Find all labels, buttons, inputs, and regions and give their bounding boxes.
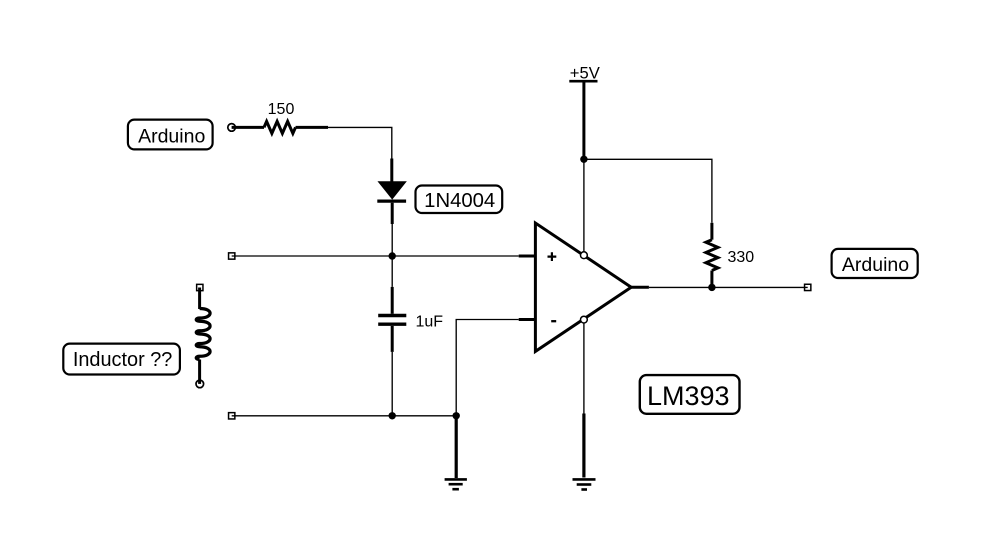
power +5V stem <box>582 81 585 159</box>
ground G2 stem <box>582 414 585 478</box>
power +5V label <box>569 63 600 82</box>
svg-text:LM393: LM393 <box>647 381 730 411</box>
wire plus-input rail <box>232 255 519 257</box>
op-amp U1 minus input stub <box>519 318 536 321</box>
wire diode to node A <box>391 224 393 256</box>
label box Arduino (left) <box>128 120 213 150</box>
op-amp V- pin circle <box>581 316 588 323</box>
svg-text:1N4004: 1N4004 <box>424 190 495 212</box>
inductor L1 coil <box>196 288 210 360</box>
node E (output junction) <box>708 284 715 291</box>
svg-text:150: 150 <box>268 101 295 118</box>
svg-text:+5V: +5V <box>570 63 600 82</box>
wire supply to op-amp V+ <box>583 159 585 252</box>
op-amp U1 triangle <box>535 223 631 351</box>
terminal T3 (bottom left, square) <box>229 413 235 419</box>
op-amp U1 plus sign <box>548 252 557 261</box>
node A (diode/cap junction) <box>389 252 396 259</box>
inductor L1 bottom lead <box>198 360 201 384</box>
inductor L1 terminal (square, top) <box>197 284 203 290</box>
ground G1 stem <box>455 416 458 478</box>
node D (supply junction) <box>580 156 587 163</box>
capacitor C1 plates <box>378 316 406 325</box>
ground G2 <box>573 479 596 489</box>
label box Inductor ?? <box>63 344 180 375</box>
inductor L1 terminal (circle, bottom) <box>196 380 204 388</box>
terminal T1 (Arduino left, circle) <box>228 124 236 132</box>
wire supply to R2 <box>584 159 712 223</box>
wire bottom rail <box>232 415 457 417</box>
node C (ground junction) <box>453 412 460 419</box>
svg-text:330: 330 <box>728 249 755 266</box>
ground G1 <box>445 479 467 489</box>
wire op-amp V- to ground <box>583 323 585 414</box>
op-amp output stub <box>631 286 649 289</box>
diode D1 1N4004 <box>377 159 406 225</box>
label box 1N4004 <box>416 186 503 214</box>
label box Arduino (right) <box>832 249 918 278</box>
resistor R1 150 (leads + zigzag) <box>232 121 328 133</box>
capacitor C1 leads <box>391 256 393 416</box>
op-amp U1 minus sign <box>551 320 556 322</box>
label box LM393 <box>640 375 740 414</box>
resistor R2 330 (leads + zigzag) <box>706 223 718 288</box>
svg-text:Inductor ??: Inductor ?? <box>73 349 173 371</box>
op-amp U1 plus input stub <box>519 255 536 258</box>
wire resistor to corner to diode <box>328 127 392 159</box>
svg-text:Arduino: Arduino <box>138 126 205 148</box>
svg-text:1uF: 1uF <box>416 313 444 330</box>
wire minus-input riser <box>456 320 519 416</box>
wire output rail <box>649 286 808 288</box>
node B (cap bottom junction) <box>389 412 396 419</box>
terminal T4 (output, square) <box>805 284 811 290</box>
terminal T2 (left, square) <box>229 253 235 259</box>
svg-text:Arduino: Arduino <box>842 254 909 276</box>
op-amp V+ pin circle <box>581 252 588 259</box>
